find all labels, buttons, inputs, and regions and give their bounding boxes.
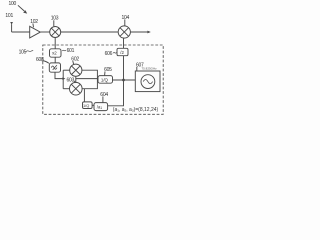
LO bus between mixers 602/603 bbox=[62, 70, 64, 89]
svg-text:/2: /2 bbox=[120, 50, 124, 55]
svg-text:(a1, a2, a3)=(8,12,24): (a1, a2, a3)=(8,12,24) bbox=[113, 107, 159, 113]
node junction bbox=[122, 79, 125, 82]
wire mixer103 to mixer104 bbox=[61, 31, 118, 33]
svg-text:75.825GHz: 75.825GHz bbox=[142, 67, 158, 71]
svg-text:1/Q: 1/Q bbox=[101, 78, 109, 83]
oscillator 607 box bbox=[135, 71, 160, 92]
leader arrow 100 bbox=[18, 5, 27, 13]
output wire with arrow bbox=[130, 31, 150, 34]
wire 603 right to node bbox=[82, 79, 97, 89]
bandpass filter 608 bbox=[49, 63, 60, 72]
leader 607 bbox=[136, 67, 138, 71]
mixer 104 bbox=[118, 26, 130, 38]
block texts bbox=[52, 50, 158, 113]
leader 602 bbox=[72, 61, 75, 64]
svg-text:608: 608 bbox=[36, 57, 44, 63]
mixer 603 bbox=[70, 82, 83, 95]
x2 multiplier 601 bbox=[50, 49, 62, 57]
svg-text:/a1: /a1 bbox=[97, 105, 103, 111]
divider 604 right block bbox=[94, 103, 108, 111]
svg-text:604: 604 bbox=[100, 92, 108, 98]
mixer 602 bbox=[70, 64, 82, 76]
divider 606 "/2" bbox=[117, 48, 128, 55]
wire 602 right to node bbox=[82, 70, 98, 78]
svg-text:602: 602 bbox=[71, 57, 79, 63]
svg-text:606: 606 bbox=[105, 51, 113, 57]
leader 605 bbox=[104, 71, 106, 75]
wire 103 down to x2 bbox=[54, 38, 56, 49]
svg-text:104: 104 bbox=[122, 15, 130, 21]
link 602 bottom to 603 top bbox=[75, 76, 77, 82]
antenna input arrow 101 bbox=[10, 22, 13, 32]
leader 603 bbox=[74, 81, 76, 83]
mixer 103 bbox=[50, 27, 61, 38]
svg-text:605: 605 bbox=[104, 67, 112, 73]
bus node up to divider 606 bbox=[123, 56, 125, 80]
bus node down to divider 604 bbox=[108, 80, 124, 106]
wire filter down and right with arrow bbox=[55, 72, 65, 80]
leader 105 tilde bbox=[26, 51, 33, 52]
leader 601 tilde bbox=[62, 49, 66, 52]
svg-text:601: 601 bbox=[67, 48, 75, 54]
svg-text:101: 101 bbox=[5, 13, 13, 19]
wire 606 up to mixer 104 bbox=[123, 38, 125, 48]
svg-text:105: 105 bbox=[19, 49, 27, 55]
wire 604 left block up to mixer 603 wire bbox=[83, 89, 85, 102]
wire bus to 602 bbox=[63, 69, 70, 71]
leader 103 bbox=[53, 20, 55, 26]
wire bus to 603 bbox=[63, 88, 69, 90]
leader 608 bbox=[42, 61, 49, 63]
wire antenna to amp bbox=[12, 31, 30, 33]
wire 605 to node bbox=[113, 79, 136, 81]
leader 102 bbox=[32, 23, 35, 27]
wire between 604 blocks bbox=[92, 104, 94, 106]
divider 605 bbox=[98, 76, 113, 84]
wire x2 to filter bbox=[54, 57, 56, 63]
text labels bbox=[5, 1, 144, 98]
svg-text:x2: x2 bbox=[52, 51, 57, 56]
wire link to divider 605 bbox=[76, 78, 98, 80]
svg-text:103: 103 bbox=[51, 16, 59, 22]
divider 604 left block bbox=[83, 102, 93, 109]
svg-text:1/Q: 1/Q bbox=[83, 103, 89, 108]
leader 606 tilde bbox=[113, 52, 117, 55]
svg-text:100: 100 bbox=[9, 1, 17, 7]
amplifier 102 bbox=[30, 26, 41, 38]
leader 104 bbox=[124, 19, 126, 25]
svg-text:102: 102 bbox=[30, 19, 38, 25]
svg-text:603: 603 bbox=[67, 77, 75, 83]
wire amp to mixer 103 bbox=[40, 31, 49, 33]
dashed box 105 bbox=[43, 45, 163, 114]
leader 604 bbox=[102, 96, 104, 102]
